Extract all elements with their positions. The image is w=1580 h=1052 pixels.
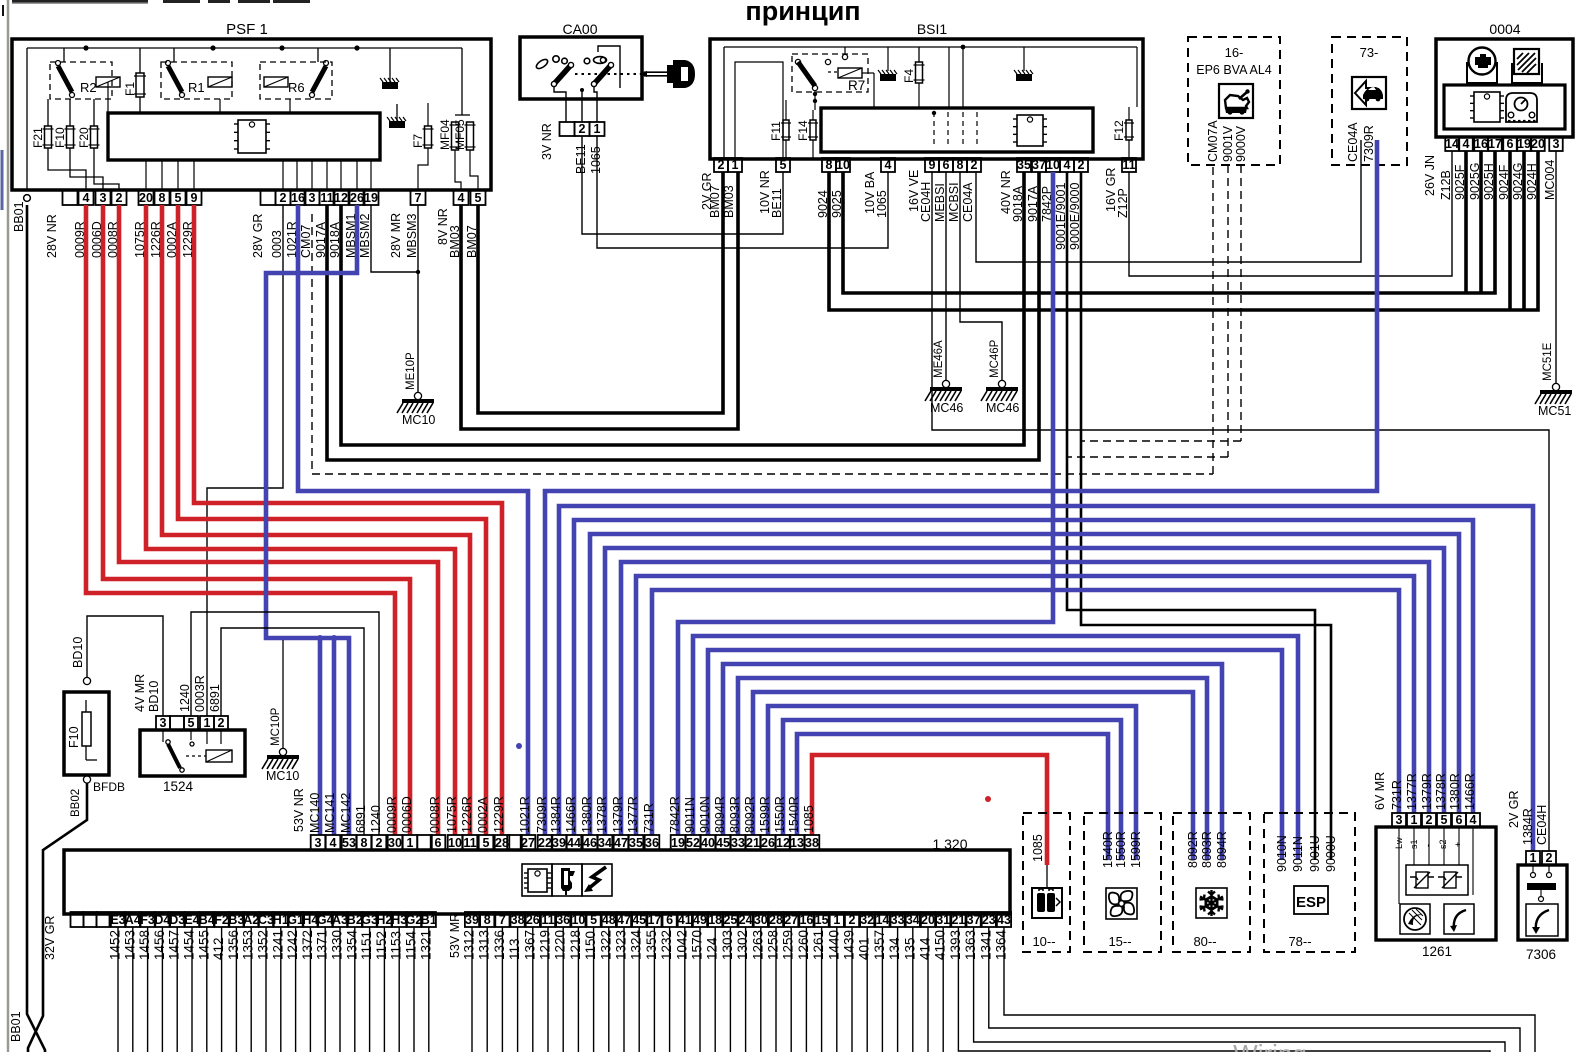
fuse MF04: [438, 119, 461, 150]
svg-text:52: 52: [686, 836, 700, 850]
1261 label: [1422, 944, 1452, 959]
svg-text:BD10: BD10: [71, 637, 85, 668]
svg-text:1152: 1152: [374, 931, 389, 960]
svg-text:1457: 1457: [167, 930, 182, 960]
svg-text:1259: 1259: [781, 930, 796, 960]
1320 top wire labels: [292, 788, 816, 833]
wire 1377R: [636, 576, 1414, 835]
ECU 1320 label: [932, 836, 967, 852]
svg-text:R7: R7: [848, 78, 865, 93]
unit 7306 pin row: [1526, 851, 1556, 865]
73 heading: [1360, 45, 1379, 60]
unit 15 fan icon: [1106, 888, 1137, 919]
svg-text:22: 22: [538, 836, 552, 850]
svg-text:1599R: 1599R: [1129, 831, 1143, 868]
1261 pin tags: [1394, 837, 1463, 849]
svg-text:1524: 1524: [163, 779, 194, 794]
BSI1 internal wires: [724, 45, 1137, 159]
title принцип: [745, 0, 860, 26]
wire BD10: [71, 616, 163, 716]
svg-text:H2: H2: [376, 913, 392, 927]
svg-text:15--: 15--: [1108, 934, 1131, 949]
0004 inner box: [1444, 85, 1565, 129]
svg-text:1454: 1454: [182, 929, 197, 960]
svg-text:1220: 1220: [553, 930, 568, 960]
svg-text:1: 1: [1530, 851, 1537, 865]
svg-text:13: 13: [790, 836, 804, 850]
svg-text:F11: F11: [769, 121, 783, 141]
svg-text:135: 135: [902, 937, 917, 960]
svg-text:20: 20: [1531, 137, 1545, 151]
fuse F14: [796, 120, 818, 141]
1320 injector icon: [552, 864, 582, 896]
svg-text:1355: 1355: [644, 930, 659, 960]
svg-text:1: 1: [407, 836, 414, 850]
wire BFDB-BB02: [28, 776, 125, 1052]
svg-text:35: 35: [1017, 158, 1031, 172]
svg-text:1452: 1452: [108, 930, 123, 960]
BSI1 ECU chip U2: [1013, 115, 1047, 146]
svg-text:1042: 1042: [674, 930, 689, 960]
svg-text:8: 8: [159, 191, 166, 205]
svg-text:3: 3: [160, 716, 167, 730]
svg-text:9000U: 9000U: [1324, 835, 1338, 872]
svg-text:1151: 1151: [359, 931, 374, 960]
svg-text:MC51E: MC51E: [1542, 342, 1554, 381]
svg-text:2: 2: [579, 122, 586, 136]
7306 curve icon: [1526, 904, 1558, 936]
svg-text:3: 3: [1553, 137, 1560, 151]
wire 1021R: [298, 205, 528, 835]
svg-text:6: 6: [943, 158, 950, 172]
svg-text:1336: 1336: [492, 930, 507, 960]
svg-text:30: 30: [388, 836, 402, 850]
svg-text:9010N: 9010N: [698, 796, 712, 833]
relay unit 1524 pins: [156, 716, 228, 730]
svg-text:731R: 731R: [642, 803, 656, 833]
svg-text:78--: 78--: [1288, 934, 1311, 949]
svg-text:1378R: 1378R: [595, 796, 609, 833]
1524 wire labels: [133, 674, 222, 712]
svg-text:1380R: 1380R: [1448, 773, 1462, 810]
unit 73 dashed box: [1332, 37, 1407, 165]
unit 0004 label: [1489, 21, 1520, 37]
wire Z12P-Z12B: [1129, 151, 1452, 276]
svg-text:2: 2: [1546, 851, 1553, 865]
fuse F4: [902, 62, 925, 83]
svg-text:33: 33: [731, 836, 745, 850]
svg-text:8093R: 8093R: [728, 796, 742, 833]
svg-text:19: 19: [364, 191, 378, 205]
svg-text:21: 21: [951, 913, 965, 927]
relay unit 1524: [140, 730, 245, 794]
svg-text:1258: 1258: [766, 930, 781, 960]
unit CA00 label: [562, 21, 597, 37]
svg-text:40: 40: [701, 836, 715, 850]
svg-text:Z12P: Z12P: [1116, 188, 1130, 218]
svg-text:27: 27: [521, 836, 535, 850]
wire MC004 to ground: [1555, 151, 1557, 383]
wire 1229R: [194, 205, 502, 835]
svg-text:1154: 1154: [404, 930, 419, 960]
PSF1 internal top rail: [27, 45, 462, 190]
svg-text:1229R: 1229R: [492, 796, 506, 833]
unit 10 dashed box: [1023, 813, 1070, 952]
svg-text:0009R: 0009R: [385, 796, 399, 833]
svg-text:26: 26: [761, 836, 775, 850]
relay R7: [792, 54, 868, 93]
svg-text:10: 10: [1046, 158, 1060, 172]
svg-text:11: 11: [463, 836, 476, 850]
EP6 heading: [1196, 45, 1272, 77]
wire MC141: [317, 635, 337, 835]
wire BM07: [478, 172, 723, 413]
ground MC10 (ME10P): [397, 352, 435, 427]
svg-text:39: 39: [465, 913, 479, 927]
svg-text:1550R: 1550R: [1114, 831, 1128, 868]
0004 connector pin row: [1445, 137, 1563, 151]
svg-text:1085: 1085: [802, 805, 816, 833]
svg-text:4: 4: [458, 191, 465, 205]
svg-text:401: 401: [857, 937, 872, 960]
svg-text:1303: 1303: [720, 930, 735, 960]
svg-text:16: 16: [291, 191, 305, 205]
wire 9018A: [341, 172, 1024, 445]
svg-text:6: 6: [1456, 813, 1463, 827]
svg-text:80--: 80--: [1193, 934, 1216, 949]
svg-text:3: 3: [1396, 813, 1403, 827]
svg-text:4: 4: [330, 836, 337, 850]
svg-text:MC10: MC10: [402, 413, 435, 427]
wire 9010N: [708, 650, 1282, 860]
unit 15 dashed box: [1084, 813, 1161, 952]
svg-text:_____: _____: [1123, 1043, 1186, 1052]
svg-text:1353: 1353: [241, 930, 256, 960]
wire BB01: [9, 195, 45, 1052]
svg-text:1241: 1241: [270, 930, 285, 960]
svg-text:16: 16: [1474, 137, 1488, 151]
svg-text:1439: 1439: [842, 930, 857, 960]
fuse F7: [411, 126, 434, 148]
svg-text:6: 6: [435, 836, 442, 850]
svg-text:1324: 1324: [629, 929, 644, 960]
svg-text:28V MR: 28V MR: [389, 213, 403, 258]
svg-text:CE04A: CE04A: [1346, 122, 1360, 162]
svg-text:1599R: 1599R: [758, 796, 772, 833]
svg-text:39: 39: [552, 836, 566, 850]
svg-text:5: 5: [780, 158, 787, 172]
svg-text:BD10: BD10: [147, 681, 161, 712]
svg-text:BE11: BE11: [770, 188, 784, 218]
svg-text:9011N: 9011N: [683, 797, 697, 833]
svg-text:MF04: MF04: [438, 119, 452, 150]
wire 0008R: [119, 205, 438, 835]
1320 bottom wire labels: [43, 913, 1009, 960]
svg-text:B4: B4: [199, 913, 215, 927]
svg-text:12: 12: [334, 191, 348, 205]
fuse box F10: [64, 692, 109, 775]
svg-text:3V NR: 3V NR: [540, 123, 554, 160]
svg-text:12: 12: [776, 836, 790, 850]
svg-text:2: 2: [218, 716, 225, 730]
wire 1226R: [162, 205, 470, 835]
svg-text:26: 26: [350, 191, 364, 205]
svg-text:MEBSI: MEBSI: [933, 183, 947, 222]
svg-text:8094R: 8094R: [1215, 831, 1229, 868]
svg-text:1260: 1260: [796, 930, 811, 960]
page left border: [2, 0, 8, 1052]
svg-text:27: 27: [784, 913, 798, 927]
svg-text:5: 5: [590, 913, 597, 927]
svg-text:CE04H: CE04H: [919, 182, 933, 222]
wire CE04H: [932, 172, 1549, 851]
svg-text:31: 31: [936, 913, 950, 927]
svg-text:37: 37: [967, 913, 981, 927]
svg-text:F2: F2: [214, 913, 229, 927]
svg-text:ME10P: ME10P: [405, 352, 417, 390]
wire MBSM2: [371, 205, 418, 272]
svg-text:1085: 1085: [1031, 834, 1045, 862]
svg-text:26: 26: [526, 913, 540, 927]
svg-text:7309R: 7309R: [535, 796, 549, 833]
svg-text:6891: 6891: [354, 805, 368, 833]
svg-text:2: 2: [1078, 158, 1085, 172]
svg-text:30: 30: [754, 913, 768, 927]
svg-text:35: 35: [629, 836, 643, 850]
svg-text:CM07: CM07: [299, 225, 313, 258]
svg-text:7306: 7306: [1526, 947, 1556, 962]
CA00 key symbol: [639, 60, 695, 88]
svg-text:MC46: MC46: [986, 401, 1019, 415]
svg-text:BE11: BE11: [574, 144, 588, 174]
svg-text:14: 14: [1445, 137, 1459, 151]
svg-text:38: 38: [511, 913, 525, 927]
svg-text:1302: 1302: [735, 930, 750, 960]
svg-text:MBSM2: MBSM2: [358, 214, 372, 259]
svg-text:MC141: MC141: [323, 793, 337, 833]
svg-text:19: 19: [671, 836, 685, 850]
svg-text:19: 19: [1517, 137, 1531, 151]
svg-text:37: 37: [1032, 158, 1046, 172]
svg-text:C3: C3: [258, 913, 274, 927]
svg-text:9000V: 9000V: [1234, 125, 1248, 162]
svg-text:10: 10: [448, 836, 462, 850]
wire 1379R: [621, 562, 1429, 835]
PSF1 wire name labels: [12, 201, 479, 258]
7306 label: [1526, 947, 1556, 962]
svg-text:1312: 1312: [462, 930, 477, 960]
svg-text:4: 4: [1064, 158, 1071, 172]
svg-text:1240: 1240: [369, 805, 383, 833]
svg-text:MC46: MC46: [930, 401, 963, 415]
wire 9017A: [327, 172, 1039, 460]
svg-text:53V NR: 53V NR: [292, 788, 306, 832]
PSF1 inner ECU box: [108, 113, 380, 160]
svg-text:0002A: 0002A: [476, 796, 490, 833]
svg-text:1232: 1232: [659, 930, 674, 960]
PSF1 ground flag 1: [380, 48, 399, 89]
svg-text:1075R: 1075R: [445, 796, 459, 833]
svg-text:134: 134: [887, 937, 902, 960]
EP6 gearbox icon: [1219, 84, 1253, 118]
svg-text:CM07A: CM07A: [1206, 120, 1220, 162]
svg-text:8: 8: [484, 913, 491, 927]
svg-text:18: 18: [708, 913, 722, 927]
wire 7842P-7842R: [678, 172, 1053, 835]
svg-text:7309R: 7309R: [1362, 125, 1376, 162]
wire 9001E-9001U: [1067, 172, 1315, 860]
BSI1 inner ECU box: [821, 108, 1093, 152]
svg-text:9010N: 9010N: [1275, 835, 1289, 872]
svg-text:B1: B1: [421, 913, 437, 927]
unit 7306 wire labels: [1507, 790, 1549, 845]
svg-text:32: 32: [860, 913, 874, 927]
svg-text:BSI1: BSI1: [917, 21, 948, 37]
svg-text:2: 2: [280, 191, 287, 205]
unit 1261 pin row: [1392, 813, 1480, 827]
wire 8092R: [753, 692, 1193, 860]
1261 sensor box: [1399, 827, 1473, 904]
svg-text:Wiring: Wiring: [1233, 1039, 1307, 1052]
svg-text:53V MR: 53V MR: [448, 913, 462, 958]
svg-text:F21: F21: [31, 127, 45, 148]
unit CA00 box: [520, 37, 642, 99]
unit 80 snowflake icon: [1196, 888, 1227, 918]
svg-text:6: 6: [1507, 137, 1514, 151]
svg-text:73-: 73-: [1360, 45, 1379, 60]
svg-text:412: 412: [211, 937, 226, 960]
svg-text:7842R: 7842R: [668, 796, 682, 833]
svg-text:-: -: [1423, 844, 1433, 847]
svg-text:4: 4: [83, 191, 90, 205]
wire 1065: [597, 136, 888, 248]
svg-text:1150: 1150: [583, 931, 598, 960]
svg-text:1379R: 1379R: [1420, 773, 1434, 810]
svg-text:Z12B: Z12B: [1439, 170, 1453, 200]
ground MC10 lower: [262, 707, 299, 783]
unit 80 dashed box: [1173, 813, 1250, 952]
svg-text:MC142: MC142: [339, 793, 353, 833]
ECU 1320 box: [64, 850, 1010, 914]
svg-text:6891: 6891: [208, 684, 222, 712]
svg-text:23: 23: [982, 913, 996, 927]
wire 1378R: [605, 548, 1444, 835]
svg-text:4: 4: [885, 158, 892, 172]
ground MC51: [1535, 342, 1572, 418]
7306 capacitor: [1527, 865, 1556, 902]
svg-text:20: 20: [921, 913, 935, 927]
svg-text:32V GR: 32V GR: [43, 916, 57, 960]
svg-text:0003: 0003: [270, 230, 284, 258]
svg-text:BB01: BB01: [12, 201, 26, 232]
svg-text:A4: A4: [125, 913, 141, 927]
wire 1085 red: [812, 755, 1047, 888]
svg-text:F10: F10: [53, 127, 67, 148]
svg-text:28: 28: [769, 913, 783, 927]
svg-text:3: 3: [315, 836, 322, 850]
svg-text:ESP: ESP: [1296, 894, 1326, 911]
svg-text:1242: 1242: [285, 930, 300, 960]
svg-text:1371: 1371: [315, 930, 330, 960]
svg-text:1: 1: [732, 158, 739, 172]
svg-text:3: 3: [100, 191, 107, 205]
1320 lightning icon: [582, 864, 612, 896]
svg-text:0004: 0004: [1489, 21, 1520, 37]
svg-text:0006D: 0006D: [400, 796, 414, 833]
wire 6891: [221, 628, 364, 835]
unit 78 dashed box: [1264, 813, 1355, 952]
svg-text:F12: F12: [1112, 120, 1126, 141]
svg-text:1: 1: [204, 716, 211, 730]
svg-text:41: 41: [678, 913, 692, 927]
svg-text:MC51: MC51: [1538, 404, 1571, 418]
svg-text:1458: 1458: [137, 930, 152, 960]
1320 top pin row: [311, 835, 820, 850]
svg-text:28V NR: 28V NR: [45, 214, 59, 258]
watermark: [1123, 1039, 1306, 1052]
wire 7309R: [545, 140, 1377, 835]
ground MC46 left (ME46A): [925, 340, 963, 415]
svg-text:1550R: 1550R: [773, 796, 787, 833]
svg-text:1372: 1372: [300, 930, 315, 960]
svg-text:1: 1: [594, 122, 601, 136]
wire MC140: [318, 638, 323, 835]
svg-text:MC46P: MC46P: [989, 339, 1001, 378]
svg-text:2: 2: [971, 158, 978, 172]
cropped header text fragments: [2, 0, 310, 16]
svg-text:1065: 1065: [589, 146, 603, 174]
svg-text:1384R: 1384R: [549, 796, 563, 833]
svg-text:48: 48: [602, 913, 616, 927]
svg-text:CA00: CA00: [562, 21, 597, 37]
svg-text:CE04A: CE04A: [961, 182, 975, 222]
wire BE11: [582, 136, 783, 234]
svg-text:A2: A2: [243, 913, 259, 927]
svg-text:1218: 1218: [568, 930, 583, 960]
svg-text:6V MR: 6V MR: [1373, 772, 1387, 810]
wire 1599R: [768, 706, 1136, 860]
wire CE04A: [976, 140, 1361, 262]
svg-text:8093R: 8093R: [1200, 831, 1214, 868]
0004 engine telltale icon: [1467, 48, 1497, 84]
svg-text:53: 53: [342, 836, 356, 850]
CA00 connector pins: [560, 122, 605, 136]
svg-text:49: 49: [693, 913, 707, 927]
BSI1 ground flag 2: [1014, 47, 1033, 81]
wire 1380R: [590, 534, 1459, 835]
svg-text:E4: E4: [184, 913, 199, 927]
wire 0003: [207, 205, 283, 716]
svg-text:5: 5: [475, 191, 482, 205]
svg-text:1466R: 1466R: [1463, 773, 1477, 810]
73 car icon: [1352, 77, 1386, 109]
svg-text:8: 8: [957, 158, 964, 172]
svg-text:28V GR: 28V GR: [251, 214, 265, 258]
svg-text:9001U: 9001U: [1308, 835, 1322, 872]
wire MEBSI to ground: [945, 172, 947, 380]
svg-text:2: 2: [849, 913, 856, 927]
unit 10 labels: [1031, 834, 1056, 949]
0004 gauge icon: [1506, 93, 1537, 122]
wire MCBSI to ground: [960, 172, 1002, 380]
svg-text:8: 8: [826, 158, 833, 172]
wire 0009R: [86, 205, 395, 835]
stray red dot: [985, 796, 991, 802]
svg-text:36: 36: [645, 836, 659, 850]
svg-text:1: 1: [1411, 813, 1418, 827]
wire 8094R: [723, 664, 1222, 860]
svg-text:0003R: 0003R: [193, 675, 207, 712]
